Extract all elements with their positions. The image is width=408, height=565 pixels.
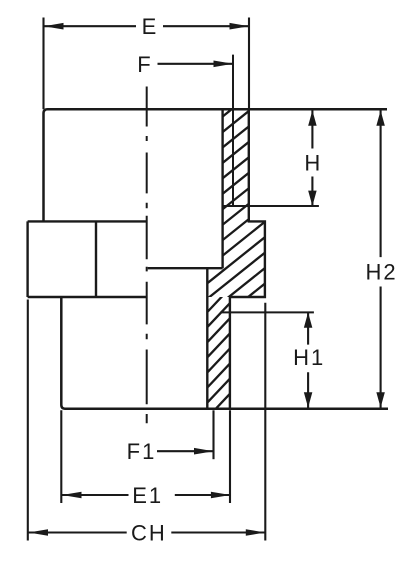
dimension F1 line	[157, 450, 214, 452]
dimension E arrows	[44, 23, 249, 30]
svg-text:F1: F1	[127, 439, 157, 464]
body bottom edge with fillet	[61, 297, 388, 409]
svg-text:F: F	[137, 52, 150, 77]
hex facet line	[95, 221, 97, 297]
dimension H1 line	[307, 312, 309, 407]
dimension H1 arrows	[304, 312, 313, 407]
bore shoulder line	[148, 267, 223, 269]
svg-text:E1: E1	[132, 483, 163, 508]
dimension H2 arrows	[376, 110, 385, 407]
H1 extension line	[220, 311, 314, 313]
dimension CH extension left	[27, 300, 29, 541]
dimension E1 extension left	[60, 410, 62, 503]
dimension F arrow	[214, 61, 234, 68]
hex nut box	[28, 221, 147, 297]
dimension F1 arrow	[194, 448, 214, 455]
dimension E1 line	[62, 494, 230, 496]
svg-text:E: E	[142, 14, 157, 39]
dimension E line	[44, 25, 250, 27]
H extension line	[223, 205, 319, 207]
svg-text:H2: H2	[366, 260, 398, 285]
svg-text:CH: CH	[131, 521, 167, 546]
dimension E1 arrows	[62, 492, 230, 499]
dimension E extension right	[248, 18, 250, 110]
dimension E extension left	[42, 18, 44, 110]
section outline right	[207, 109, 265, 409]
dimension F line	[158, 63, 234, 65]
body top edge with fillet	[44, 109, 388, 221]
dimension CH extension right	[264, 303, 266, 541]
svg-text:H: H	[304, 151, 320, 176]
dimension F1 extension	[212, 410, 214, 459]
section hatch upper	[188, 62, 272, 361]
svg-text:H1: H1	[293, 345, 325, 370]
thread line / F extension	[232, 55, 234, 206]
dimension E1 extension right	[229, 410, 231, 503]
dimension CH line	[29, 531, 266, 533]
dimension H line	[311, 110, 313, 206]
dimension CH arrows	[29, 529, 266, 536]
dimension H arrows	[308, 110, 317, 206]
section hatch male column	[200, 267, 236, 441]
dimension H2 line	[380, 110, 382, 407]
centerline	[146, 87, 148, 424]
